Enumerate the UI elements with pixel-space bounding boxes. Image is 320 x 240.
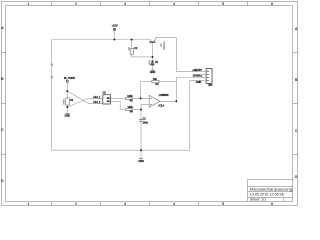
resistor R1 xyxy=(63,98,74,105)
svg-text:GND: GND xyxy=(138,160,144,163)
svg-text:13.05.2010 12:06:36: 13.05.2010 12:06:36 xyxy=(250,192,284,196)
junction bottom gnd node xyxy=(140,149,142,151)
wire zener to gnd xyxy=(152,65,154,70)
resistor R3 xyxy=(126,95,134,102)
wire emitter to connector pin1 xyxy=(156,37,202,71)
zener diode D1 xyxy=(149,61,159,65)
svg-text:6: 6 xyxy=(271,202,273,206)
wire R3 to opamp minus xyxy=(132,97,149,99)
junction R1 bottom node xyxy=(66,106,68,108)
ground below R1 xyxy=(65,113,71,117)
svg-text:GND: GND xyxy=(65,115,71,118)
svg-text:Messwertanpassung: Messwertanpassung xyxy=(250,186,292,191)
junction input node xyxy=(66,90,68,92)
ground below zener xyxy=(150,70,156,74)
wire R1 to gnd xyxy=(66,107,68,113)
ground bottom center xyxy=(138,159,144,163)
transistor T1 xyxy=(149,37,165,50)
svg-text:+15V: +15V xyxy=(112,24,118,28)
frame column tick 2/3 bottom xyxy=(100,201,102,205)
node IN_CURR input pin xyxy=(64,77,75,82)
wire R5 top xyxy=(131,40,133,49)
wire R1 top xyxy=(66,91,68,98)
svg-text:SIGNAL: SIGNAL xyxy=(193,74,203,77)
net tick label upper on left wire xyxy=(51,63,53,66)
svg-text:4: 4 xyxy=(173,202,175,206)
svg-text:LM358N: LM358N xyxy=(159,94,169,97)
svg-text:IC1A: IC1A xyxy=(159,105,165,108)
capacitor C1 xyxy=(139,117,148,124)
resistor R5 xyxy=(128,47,138,54)
frame column tick 3/4 bottom xyxy=(149,201,151,205)
op-amp IC1A xyxy=(149,94,168,107)
frame row tick C/D right xyxy=(293,154,298,156)
junction supply tap xyxy=(113,39,115,41)
wire feedback vertical xyxy=(140,82,142,99)
wire cross upper-to-lower pin xyxy=(67,91,103,103)
svg-text:5: 5 xyxy=(222,202,224,206)
svg-text:100k: 100k xyxy=(127,95,133,98)
connector JP1 xyxy=(202,69,213,87)
wire U1 upper out to R3 xyxy=(110,97,125,99)
wire left vertical xyxy=(51,40,53,151)
svg-text:GND: GND xyxy=(150,71,156,74)
wire opamp output xyxy=(160,100,176,102)
wire gnd stub bottom xyxy=(140,150,142,158)
wire feedback left xyxy=(141,81,152,83)
junction zener-base node xyxy=(152,56,154,58)
svg-text:2: 2 xyxy=(75,2,77,6)
frame row tick C/D left xyxy=(1,154,5,156)
junction output node xyxy=(175,100,177,102)
wire base vertical xyxy=(152,43,154,61)
frame column tick 4/5 bottom xyxy=(198,201,200,205)
svg-text:+REF5V: +REF5V xyxy=(192,69,202,72)
frame row tick A/B left xyxy=(1,52,5,54)
junction opamp minus node xyxy=(140,97,142,99)
svg-text:3: 3 xyxy=(124,2,126,6)
wire cap top xyxy=(140,110,142,120)
frame column tick 1/2 bottom xyxy=(51,201,53,205)
junction dots xyxy=(66,39,177,152)
title block frame xyxy=(248,180,293,202)
wire cap bottom xyxy=(140,121,142,150)
wire signal riser to connector pin2 xyxy=(176,78,202,102)
svg-text:Sheet: 1/1: Sheet: 1/1 xyxy=(250,197,266,201)
frame row tick A/B right xyxy=(293,52,298,54)
wire U1 lower out to R4 xyxy=(110,101,125,109)
svg-text:GND: GND xyxy=(196,81,202,84)
resistor R2 feedback xyxy=(152,78,159,86)
wire R5 bottom to zener node xyxy=(132,54,153,57)
svg-text:100k: 100k xyxy=(128,106,134,109)
wire feedback right xyxy=(159,81,176,83)
junction R4-cap node xyxy=(140,109,142,111)
svg-text:JP1: JP1 xyxy=(208,84,213,87)
wire R4 to opamp plus xyxy=(132,109,141,111)
svg-text:ADJ_1: ADJ_1 xyxy=(93,96,101,99)
net tick label lower on left wire xyxy=(51,76,53,79)
svg-text:1: 1 xyxy=(27,202,29,206)
svg-text:IN_CURR: IN_CURR xyxy=(64,77,75,80)
svg-text:3: 3 xyxy=(124,202,126,206)
frame column tick 4/5 top xyxy=(198,1,200,5)
junction R5 tap xyxy=(131,39,133,41)
frame column tick 2/3 top xyxy=(100,1,102,5)
wire top +15V rail xyxy=(52,39,151,41)
supply +15V symbol xyxy=(112,24,118,31)
frame column tick 3/4 top xyxy=(149,1,151,5)
svg-text:2: 2 xyxy=(75,202,77,206)
frame column tick 1/2 top xyxy=(51,1,53,5)
wire cap node riser to opamp plus xyxy=(141,104,149,109)
svg-text:1: 1 xyxy=(27,2,29,6)
frame row tick B/C right xyxy=(293,103,298,105)
svg-text:6: 6 xyxy=(271,2,273,6)
frame column tick 5/6 top xyxy=(247,1,249,5)
svg-text:4: 4 xyxy=(173,2,175,6)
shunt box U1 xyxy=(93,92,110,104)
wire input pin stub xyxy=(66,83,68,92)
wire connector pin3 stub xyxy=(202,73,206,75)
wire supply stub xyxy=(113,31,115,40)
svg-text:100n: 100n xyxy=(143,121,149,124)
frame outer border xyxy=(1,1,297,205)
wire bottom horizontal xyxy=(52,149,190,151)
svg-text:ADJ_2: ADJ_2 xyxy=(93,101,101,104)
frame inner border xyxy=(6,6,293,202)
wire gnd riser to connector pin4 xyxy=(190,81,202,151)
svg-text:10k: 10k xyxy=(153,78,158,81)
frame row tick B/C left xyxy=(1,103,5,105)
wire R1 bottom xyxy=(66,105,68,107)
wire cross lower-to-upper pin xyxy=(67,98,103,107)
svg-text:5: 5 xyxy=(222,2,224,6)
resistor R4 xyxy=(126,106,134,113)
